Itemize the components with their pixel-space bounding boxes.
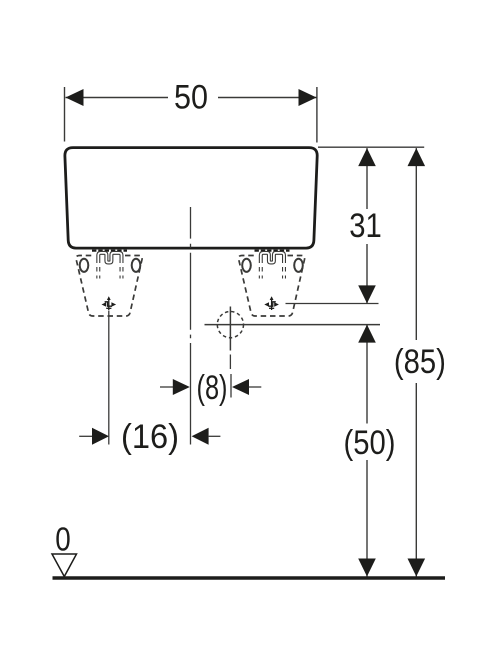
svg-text:(16): (16): [121, 418, 179, 456]
dimension 50 line right segment: [218, 97, 317, 99]
left clip right leg white core: [121, 259, 123, 279]
dimension 50 line left segment: [66, 97, 169, 99]
dimension (50) bottom arrow: [358, 559, 376, 577]
svg-text:50: 50: [174, 79, 208, 117]
left clip right leg dashed: [120, 259, 124, 279]
drain circle dashed: [217, 312, 243, 338]
drain horizontal axis / extension to (50): [205, 324, 381, 326]
drain vertical axis lower dash: [229, 355, 231, 370]
dimension 31 top arrow: [358, 148, 376, 166]
dimension (50) line lower segment: [366, 460, 368, 577]
right clip right leg white core: [283, 259, 285, 279]
dimension (8) right tail: [249, 386, 262, 388]
right clip right leg dashed: [282, 259, 286, 279]
dimension (8) left arrow: [173, 379, 190, 395]
right clip left leg dashed: [259, 259, 263, 279]
dimension (85) top arrow: [408, 148, 426, 166]
left clip plate dashed edge: [92, 250, 127, 252]
right clip bridge outer: [261, 253, 284, 263]
floor line: [53, 576, 446, 579]
dimension (50) top arrow: [358, 325, 376, 343]
centerline of basin: [190, 207, 192, 445]
dimension (50) line upper segment: [366, 325, 368, 424]
right clip left leg white core: [260, 259, 262, 279]
right bracket right slot: [294, 259, 303, 272]
right anchor symbol: [268, 298, 275, 311]
dimension 31 line upper segment: [366, 148, 368, 209]
left clip left leg dashed: [96, 259, 100, 279]
left clip bridge inner white: [98, 253, 121, 263]
rim extension line to right: [318, 146, 424, 148]
dimension 31 line lower segment: [366, 244, 368, 303]
drain vertical axis: [229, 307, 231, 351]
dimension (16) right arrow: [192, 428, 209, 445]
svg-text:(50): (50): [344, 424, 396, 462]
left anchor symbol: [105, 298, 112, 311]
dimension (8) right arrow: [232, 379, 249, 395]
dimension 31 bottom arrow: [358, 285, 376, 303]
svg-text:0: 0: [55, 520, 71, 557]
dimension 50 right extension line: [316, 87, 318, 143]
right bracket dashed outline: [239, 256, 305, 317]
left bracket dashed outline: [76, 256, 142, 317]
dimension 50 left arrow: [66, 89, 84, 106]
basin outline: [65, 148, 317, 249]
right bracket left slot: [242, 259, 251, 272]
dimension 50 right arrow: [299, 89, 317, 106]
datum triangle: [52, 554, 77, 577]
dimension (16) right tail: [209, 435, 221, 437]
svg-text:(8): (8): [197, 369, 228, 407]
right clip plate dashed edge: [255, 250, 290, 252]
dimension (85) bottom arrow: [408, 559, 426, 577]
dimension (85) line upper segment: [415, 148, 417, 340]
dimension (16) left arrow: [92, 428, 109, 445]
right clip bridge inner white: [261, 253, 284, 263]
left bracket left slot: [80, 259, 89, 272]
dimension (85) line lower segment: [415, 383, 417, 577]
dimension (8) extension line: [230, 374, 232, 398]
left bracket right slot: [132, 259, 141, 272]
dimension (8) left tail: [160, 386, 174, 388]
svg-text:31: 31: [349, 207, 382, 245]
dimension (16) left tail: [79, 435, 92, 437]
dimension 50 left extension line: [64, 87, 66, 142]
left clip left leg white core: [97, 259, 99, 279]
anchor extension line to right: [286, 303, 379, 305]
left anchor extension line down: [108, 311, 110, 445]
svg-text:(85): (85): [394, 343, 446, 381]
left clip bridge outer: [98, 253, 121, 263]
